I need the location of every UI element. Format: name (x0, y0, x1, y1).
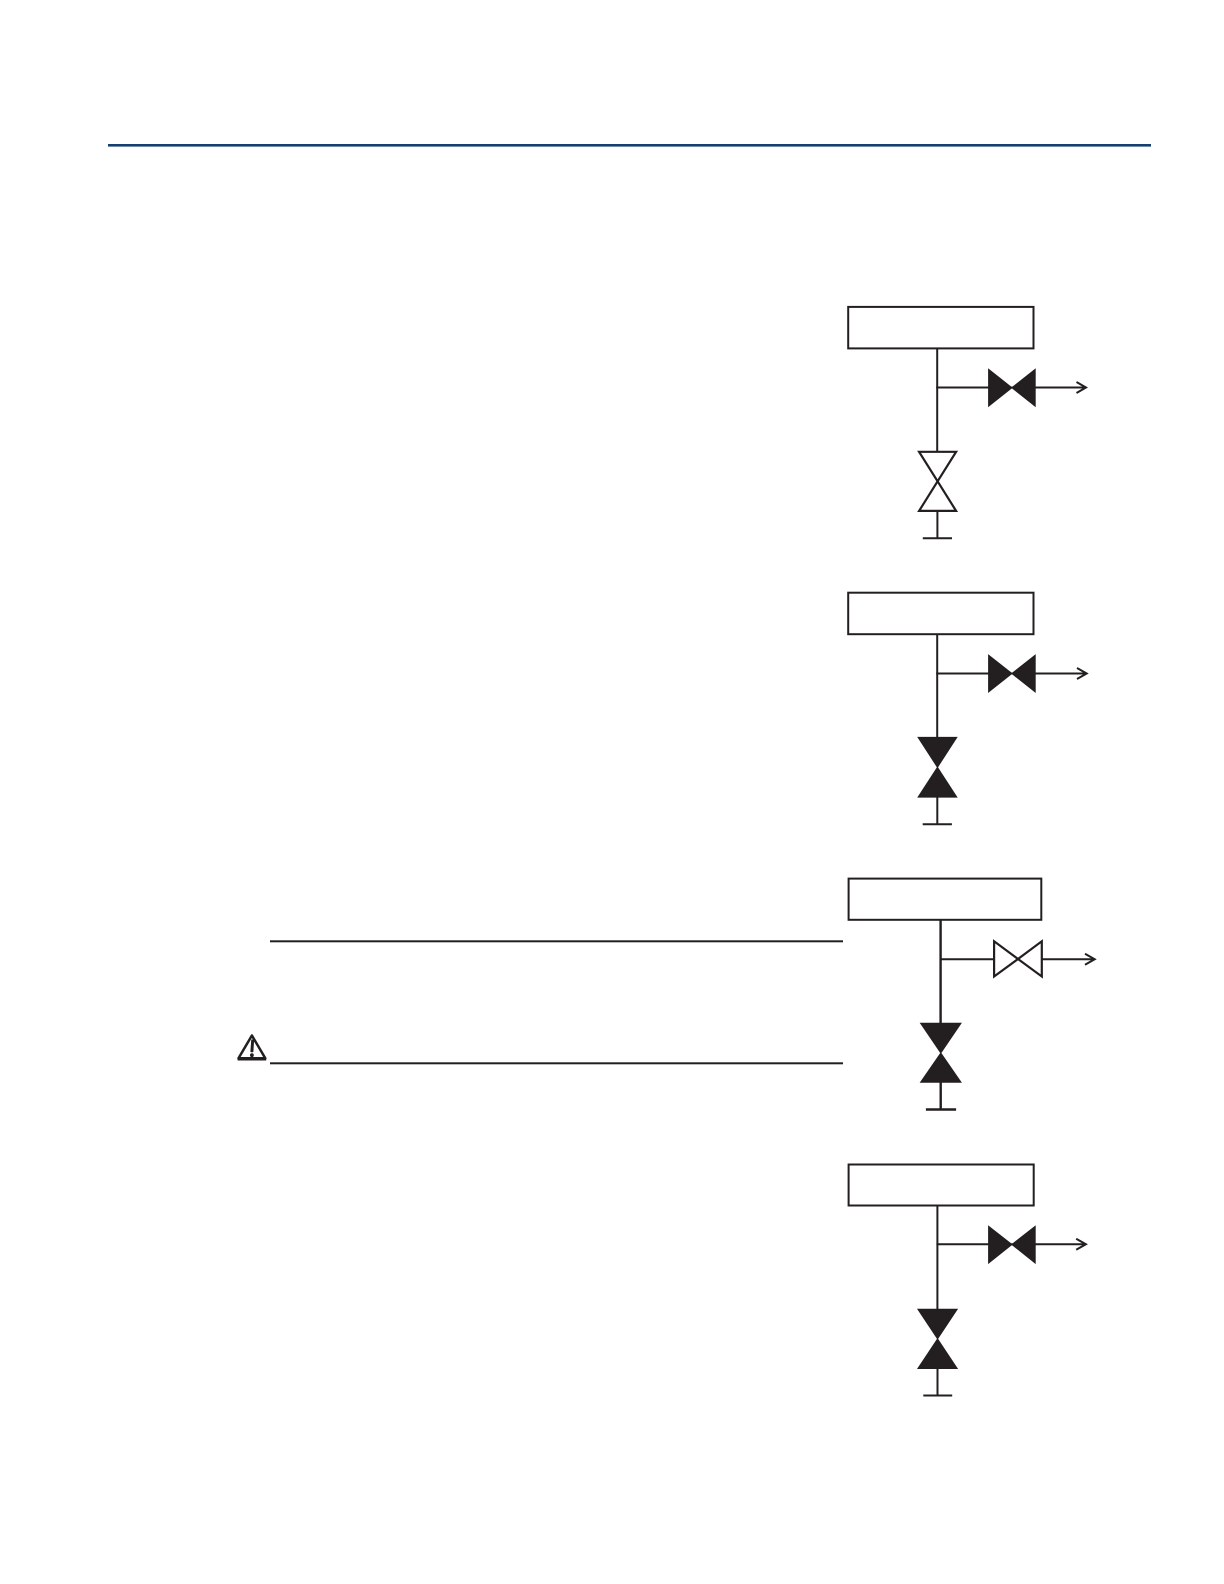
drain/vent bar figure 2 (923, 823, 952, 825)
valve (closed) figure 1 horizontal isolation valve (989, 369, 1036, 406)
valve (open) figure 1 vertical drain valve (919, 452, 956, 511)
drain/vent bar figure 3 (926, 1108, 956, 1110)
wire: figure 4 horizontal branch to transmitter (936, 1243, 1085, 1245)
figure 4: tank box (849, 1165, 1034, 1206)
drain/vent bar figure 1 (923, 537, 952, 539)
valve (closed) figure 3 vertical drain valve (921, 1023, 961, 1082)
header rule (blue) (108, 144, 1151, 147)
wire: figure 2 stem below drain valve (936, 797, 938, 824)
wire: figure 3 stem below drain valve (940, 1082, 942, 1109)
valve (open) figure 3 horizontal isolation valve (994, 941, 1042, 976)
wire: figure 2 horizontal branch to transmitter (936, 673, 1085, 675)
figure 3: tank box (849, 879, 1042, 920)
valve (closed) figure 2 horizontal isolation valve (989, 655, 1036, 692)
warning icon (triangle with exclamation) (238, 1036, 267, 1060)
valve (closed) figure 2 vertical drain valve (918, 737, 957, 797)
figure 2: tank box (848, 593, 1033, 635)
drain/vent bar figure 4 (923, 1395, 952, 1397)
valve (closed) figure 4 horizontal isolation valve (989, 1226, 1036, 1263)
wire: figure 2 vertical stem from tank (936, 634, 938, 739)
wire: figure 1 stem below drain valve (936, 511, 938, 538)
wire: figure 4 stem below drain valve (937, 1369, 939, 1396)
text rule 2 (270, 1062, 843, 1064)
arrow: figure 3 flow arrow (1085, 954, 1095, 965)
arrow: figure 2 flow arrow (1077, 668, 1087, 679)
wire: figure 3 horizontal branch to transmitter (940, 958, 1094, 960)
arrow: figure 1 flow arrow (1077, 382, 1087, 393)
figure 1: impulse piping tank box (848, 307, 1033, 349)
wire: figure 1 vertical stem from tank (936, 348, 938, 453)
wire: figure 1 horizontal branch to transmitter (936, 387, 1085, 389)
valve (closed) figure 4 vertical drain valve (918, 1309, 957, 1368)
arrow: figure 4 flow arrow (1076, 1239, 1086, 1250)
text rule 1 (270, 940, 843, 942)
wire: figure 4 vertical stem from tank (936, 1206, 938, 1311)
wire: figure 3 vertical stem from tank (939, 920, 941, 1025)
